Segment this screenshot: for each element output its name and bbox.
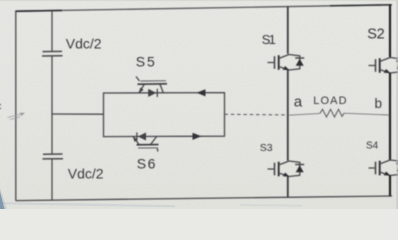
wire top rail — [16, 5, 393, 11]
wire phase leg b middle — [389, 73, 391, 160]
svg-text:Vdc/2: Vdc/2 — [68, 165, 104, 181]
capacitor C1 top plate — [43, 50, 63, 52]
IGBT S6 (horizontal, on bottom branch) — [133, 132, 159, 151]
wire capacitor branch lower — [51, 159, 53, 200]
IGBT S3 — [268, 161, 305, 177]
scan shadow bottom right — [240, 204, 302, 207]
wire phase leg a upper — [287, 6, 289, 53]
arrow left on top branch — [197, 89, 206, 96]
svg-text:LOAD: LOAD — [313, 95, 348, 107]
resistor LOAD zigzag — [320, 109, 344, 117]
IGBT S4 — [369, 160, 398, 176]
dashed wire from cell to node a — [225, 113, 288, 116]
wire phase leg a middle — [287, 70, 289, 161]
svg-text:S4: S4 — [366, 141, 379, 152]
wire phase leg a lower — [287, 177, 289, 198]
annotation arrow on left rail — [8, 113, 26, 120]
arrow right on bottom branch — [193, 133, 202, 140]
scan blue wedge bottom-left corner — [0, 192, 5, 210]
scan right edge strip — [396, 0, 398, 209]
IGBT S2 — [369, 58, 398, 74]
scan top edge line — [0, 0, 398, 1]
wire top rail left dark segment — [15, 9, 62, 12]
svg-text:S1: S1 — [262, 32, 276, 47]
svg-text:a: a — [294, 93, 303, 110]
svg-text:S6: S6 — [137, 155, 157, 171]
wire top rail right dark segment — [330, 5, 392, 6]
wire bottom rail — [16, 196, 393, 201]
IGBT S5 (horizontal, on top branch) — [136, 77, 167, 98]
svg-text:Vdc/2: Vdc/2 — [66, 35, 102, 51]
scan shadow bottom — [0, 203, 175, 206]
wire phase leg b lower — [389, 176, 391, 197]
svg-text:b: b — [375, 96, 383, 111]
wire load left — [289, 113, 320, 115]
wire capacitor branch middle — [51, 56, 53, 154]
svg-text:S5: S5 — [136, 53, 157, 69]
wire capacitor branch upper — [51, 11, 53, 52]
svg-text:S3: S3 — [260, 142, 273, 154]
capacitor C2 bottom plate — [43, 158, 64, 160]
wire left rail — [15, 11, 17, 201]
switch cell loop rectangle — [104, 93, 225, 137]
capacitor C2 top plate — [43, 153, 63, 155]
capacitor C1 bottom plate — [42, 55, 63, 57]
wire phase leg b upper — [389, 5, 391, 57]
IGBT S1 — [268, 55, 305, 71]
svg-text:S2: S2 — [367, 27, 384, 43]
wire midpoint to switch cell — [52, 113, 104, 115]
wire load right — [344, 113, 389, 115]
